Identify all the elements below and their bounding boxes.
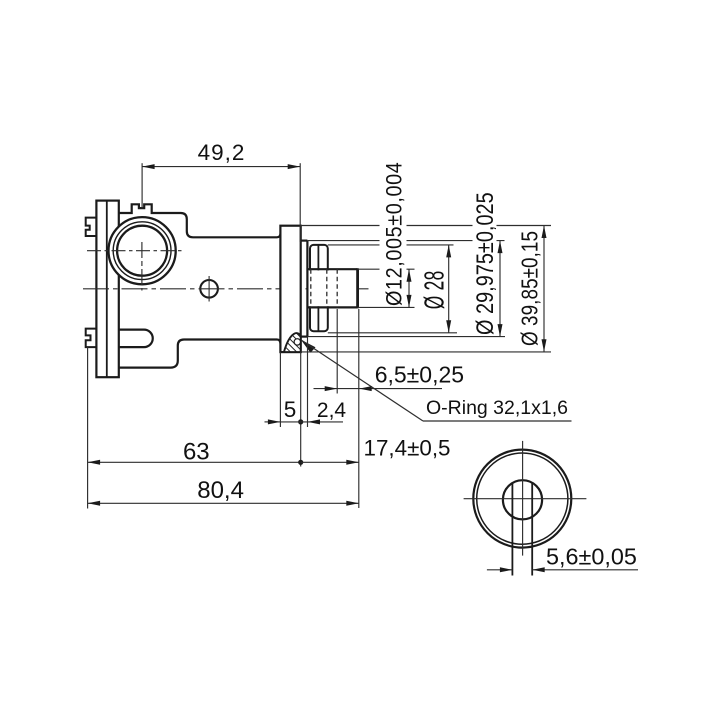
svg-text:5,6±0,05: 5,6±0,05 xyxy=(546,543,637,569)
dim 49,2 line xyxy=(142,166,300,168)
label box Ø39,85 xyxy=(516,231,540,347)
flange plate (right) xyxy=(280,226,300,352)
ext line flange bottom xyxy=(301,351,551,353)
end view inner ring xyxy=(477,453,568,544)
ext line seal top xyxy=(328,244,454,246)
dim 2,4 line right part xyxy=(308,421,344,423)
centering boss face xyxy=(306,241,308,337)
pump body lower outline / foot step xyxy=(120,340,281,368)
centering boss bottom edge xyxy=(301,336,308,338)
shaft end face xyxy=(356,268,359,308)
end view vertical center line xyxy=(522,441,524,556)
shaft flat left xyxy=(511,483,513,576)
centering boss top edge xyxy=(301,240,308,242)
inlet port middle circle xyxy=(113,222,171,280)
O-ring leader arrowhead xyxy=(301,340,316,353)
shaft top edge xyxy=(307,268,357,270)
dim 49,2 right extension xyxy=(299,163,301,242)
shaft bottom edge xyxy=(307,306,357,308)
ext line shaft top xyxy=(358,268,415,270)
dim 5/2,4 shared dot xyxy=(298,419,303,424)
svg-text:Ø12,005±0,004: Ø12,005±0,004 xyxy=(383,162,407,306)
foot slot xyxy=(120,330,153,348)
mounting plate xyxy=(96,201,118,378)
dim 49,2 left extension xyxy=(141,163,143,208)
ext line shaft end (6,5 / 17,4 / 80,4) xyxy=(358,309,360,508)
dim 80,4 line xyxy=(88,502,359,504)
label box Ø29,975 xyxy=(473,194,497,336)
dim 5,6 line left part xyxy=(487,569,513,571)
ext line 2,4 right (boss face) xyxy=(307,337,309,427)
svg-text:49,2: 49,2 xyxy=(198,140,246,165)
end view outer circle xyxy=(473,450,571,548)
ext line boss top xyxy=(307,240,504,242)
svg-text:63: 63 xyxy=(183,438,210,465)
inlet port bore circle xyxy=(117,226,167,276)
svg-text:17,4±0,5: 17,4±0,5 xyxy=(364,436,451,461)
small hole on body xyxy=(200,280,218,298)
O-ring groove hatch xyxy=(284,333,301,352)
dim Ø12,005 line xyxy=(408,269,410,307)
svg-text:6,5±0,25: 6,5±0,25 xyxy=(375,362,464,388)
ext line 63/80,4 left (tab face) xyxy=(87,347,89,508)
dim 5 line left part xyxy=(265,421,281,423)
seal sleeve ring xyxy=(310,245,328,331)
ext line flange top xyxy=(301,225,551,227)
seal sleeve inner line xyxy=(317,245,319,330)
end view hub circle xyxy=(503,480,542,519)
dim Ø29,975 line xyxy=(499,241,501,337)
label box Ø12,005 xyxy=(380,162,407,306)
svg-text:Ø 28: Ø 28 xyxy=(418,270,449,309)
ext line seal bottom xyxy=(328,332,457,334)
O-ring leader line xyxy=(302,340,424,421)
main axis center line xyxy=(83,288,369,290)
inlet port outer circle xyxy=(109,217,176,284)
inlet port horizontal center line xyxy=(87,250,183,252)
end view horizontal center line xyxy=(464,498,587,500)
hidden line 2 xyxy=(326,269,328,307)
mounting plate inner line xyxy=(106,201,108,378)
dim 5,6 line right part xyxy=(532,569,638,571)
svg-text:5: 5 xyxy=(284,397,297,422)
O-ring cross-section circle xyxy=(294,339,300,345)
svg-text:Ø 39,85±0,15: Ø 39,85±0,15 xyxy=(518,231,543,346)
dim 63 line xyxy=(88,461,301,463)
ext line boss bottom xyxy=(307,336,505,338)
label box Ø28 xyxy=(421,271,448,310)
dim Ø28 line xyxy=(448,245,450,333)
upper mounting tab xyxy=(86,218,97,236)
shaft white mask xyxy=(309,270,357,306)
dim 6,5 line xyxy=(314,388,443,390)
ext line 5 left (flange left face) xyxy=(279,352,281,427)
inlet port vertical center line xyxy=(141,242,143,291)
shaft flat right xyxy=(531,483,533,576)
hidden line 3 xyxy=(336,269,338,307)
small hole vertical center line xyxy=(208,276,210,302)
ext line 6,5 left xyxy=(336,309,338,394)
ext line shaft bottom xyxy=(358,306,415,308)
svg-text:2,4: 2,4 xyxy=(317,399,347,422)
svg-text:80,4: 80,4 xyxy=(197,477,244,504)
svg-text:Ø 29,975±0,025: Ø 29,975±0,025 xyxy=(471,192,498,335)
svg-text:O-Ring 32,1x1,6: O-Ring 32,1x1,6 xyxy=(426,397,568,419)
pump body upper outline with top lug xyxy=(120,204,281,237)
O-ring label underline xyxy=(423,420,572,422)
lower mounting tab xyxy=(86,329,97,348)
dim Ø39,85 line xyxy=(543,226,545,352)
ext line flange right face (5 / 2,4 / 63) xyxy=(300,352,302,466)
hidden line 1 xyxy=(310,269,312,307)
dim 17,4 line xyxy=(301,461,359,463)
